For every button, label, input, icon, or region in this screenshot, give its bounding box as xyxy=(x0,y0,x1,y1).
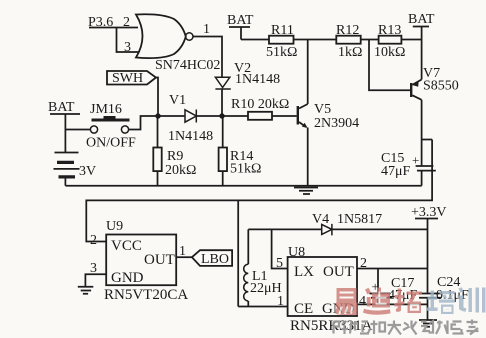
svg-text:1N5817: 1N5817 xyxy=(337,212,382,227)
wire battery bottom to ground rail xyxy=(64,179,66,186)
svg-text:LX: LX xyxy=(294,264,314,280)
NOR output bubble xyxy=(186,33,193,40)
svg-text:RN5VT20CA: RN5VT20CA xyxy=(104,287,188,303)
svg-text:BAT: BAT xyxy=(48,100,75,115)
diode V4 1N5817 xyxy=(322,224,332,236)
svg-text:V5: V5 xyxy=(314,102,331,117)
watermark small red text xyxy=(334,320,479,335)
capacitor C24 xyxy=(419,294,441,298)
wire U9 pin3 to ground xyxy=(85,274,106,287)
svg-text:R12: R12 xyxy=(336,23,359,38)
svg-text:OUT: OUT xyxy=(323,264,354,280)
svg-text:R13: R13 xyxy=(378,23,401,38)
wire U8 GND to ground xyxy=(357,303,428,305)
wire switch to node xyxy=(129,116,158,130)
svg-text:VCC: VCC xyxy=(111,238,142,254)
svg-text:BAT: BAT xyxy=(408,12,435,27)
wire SWH down to node xyxy=(156,78,158,117)
char tuo (red) xyxy=(394,289,422,314)
svg-text:GND: GND xyxy=(111,270,144,286)
svg-text:BAT: BAT xyxy=(227,13,254,28)
wire U8 OUT to +3.3V rail xyxy=(357,268,428,270)
wire battery rail branch to L1/CE xyxy=(237,200,239,306)
svg-text:5: 5 xyxy=(276,256,283,271)
IC U8 RN5RK331A xyxy=(288,257,357,316)
svg-text:1: 1 xyxy=(203,22,210,37)
node junction dot B xyxy=(219,113,224,118)
resistor R11 xyxy=(269,36,294,44)
IC U9 RN5VT20CA xyxy=(106,235,176,286)
resistor R10 xyxy=(222,115,297,117)
wire pin3 wrap xyxy=(117,28,140,53)
svg-text:SWH: SWH xyxy=(112,71,143,86)
svg-text:1N4148: 1N4148 xyxy=(168,129,213,144)
inductor L1 xyxy=(247,229,249,264)
wire R11 to R12 xyxy=(294,39,337,41)
svg-text:JM16: JM16 xyxy=(90,102,122,117)
char di (red) xyxy=(363,288,391,315)
svg-text:4: 4 xyxy=(359,294,366,309)
svg-text:ON/OFF: ON/OFF xyxy=(86,136,136,151)
svg-text:V4: V4 xyxy=(312,212,329,227)
wire gate output to V2 xyxy=(193,37,222,78)
switch JM16 pushbutton xyxy=(92,116,130,122)
ground under V5 xyxy=(294,188,318,195)
svg-text:CE: CE xyxy=(294,301,313,317)
flag SWH xyxy=(107,71,156,85)
capacitor C17 xyxy=(377,269,379,305)
NOR gate U1 SN74HC02 xyxy=(136,14,186,58)
svg-text:+: + xyxy=(412,153,419,168)
wire V7 output rail to U9 xyxy=(86,140,432,242)
svg-text:2: 2 xyxy=(90,233,97,248)
svg-text:OUT: OUT xyxy=(144,252,175,268)
svg-text:1kΩ: 1kΩ xyxy=(338,45,362,60)
transistor V5 2N3904 xyxy=(297,106,299,125)
wire P3.6 to gate pin2 xyxy=(89,27,138,29)
svg-text:51kΩ: 51kΩ xyxy=(230,162,261,177)
watermark big characters xyxy=(335,287,486,315)
diode V2 1N4148 xyxy=(215,77,230,89)
svg-text:U8: U8 xyxy=(288,245,305,260)
svg-text:3V: 3V xyxy=(79,164,96,179)
svg-text:SN74HC02: SN74HC02 xyxy=(155,58,220,73)
wire CE row xyxy=(238,306,287,308)
BAT tick xyxy=(50,113,80,115)
svg-text:1: 1 xyxy=(277,294,284,309)
resistor R9 xyxy=(157,116,159,186)
svg-text:R10 20kΩ: R10 20kΩ xyxy=(231,97,289,112)
svg-text:R9: R9 xyxy=(167,149,183,164)
svg-text:10kΩ: 10kΩ xyxy=(374,45,405,60)
node junction dot A xyxy=(155,113,160,118)
svg-text:51kΩ: 51kΩ xyxy=(266,45,297,60)
resistor R12 xyxy=(336,36,360,44)
char yi (red) xyxy=(335,288,358,315)
battery 3V xyxy=(55,152,79,154)
resistor R13 xyxy=(379,36,402,44)
svg-text:S8550: S8550 xyxy=(423,79,459,94)
wire U9 OUT to LBO xyxy=(176,256,192,258)
transistor V7 S8550 xyxy=(369,40,410,91)
char pei (blue) xyxy=(427,291,455,315)
svg-text:2: 2 xyxy=(123,15,130,30)
ground under C24 xyxy=(419,320,437,327)
resistor R14 xyxy=(222,116,224,186)
wire V4 row xyxy=(248,228,427,230)
diode V1 1N4148 xyxy=(158,115,185,117)
wire battery to switch xyxy=(65,129,90,131)
wire LX pin5 xyxy=(272,229,288,268)
wire R13 to BAT right xyxy=(401,39,421,41)
capacitor C15 xyxy=(421,100,423,140)
svg-text:U9: U9 xyxy=(106,219,123,234)
ground rail xyxy=(65,185,421,187)
svg-text:RN5RK331A: RN5RK331A xyxy=(290,318,373,334)
wire R12 to R13 xyxy=(361,39,379,41)
svg-text:2N3904: 2N3904 xyxy=(314,116,359,131)
svg-text:47μF: 47μF xyxy=(381,164,411,179)
svg-text:R11: R11 xyxy=(271,23,294,38)
char xun (blue) xyxy=(458,287,486,312)
svg-text:20kΩ: 20kΩ xyxy=(165,163,196,178)
svg-text:1N4148: 1N4148 xyxy=(235,72,280,87)
svg-text:3: 3 xyxy=(124,40,131,55)
flag LBO xyxy=(192,250,232,266)
wire BAT to R11 xyxy=(241,39,269,41)
svg-text:V1: V1 xyxy=(169,93,186,108)
svg-text:LBO: LBO xyxy=(201,252,229,267)
ground U9 xyxy=(78,287,94,294)
wire BAT down to battery xyxy=(64,114,66,153)
